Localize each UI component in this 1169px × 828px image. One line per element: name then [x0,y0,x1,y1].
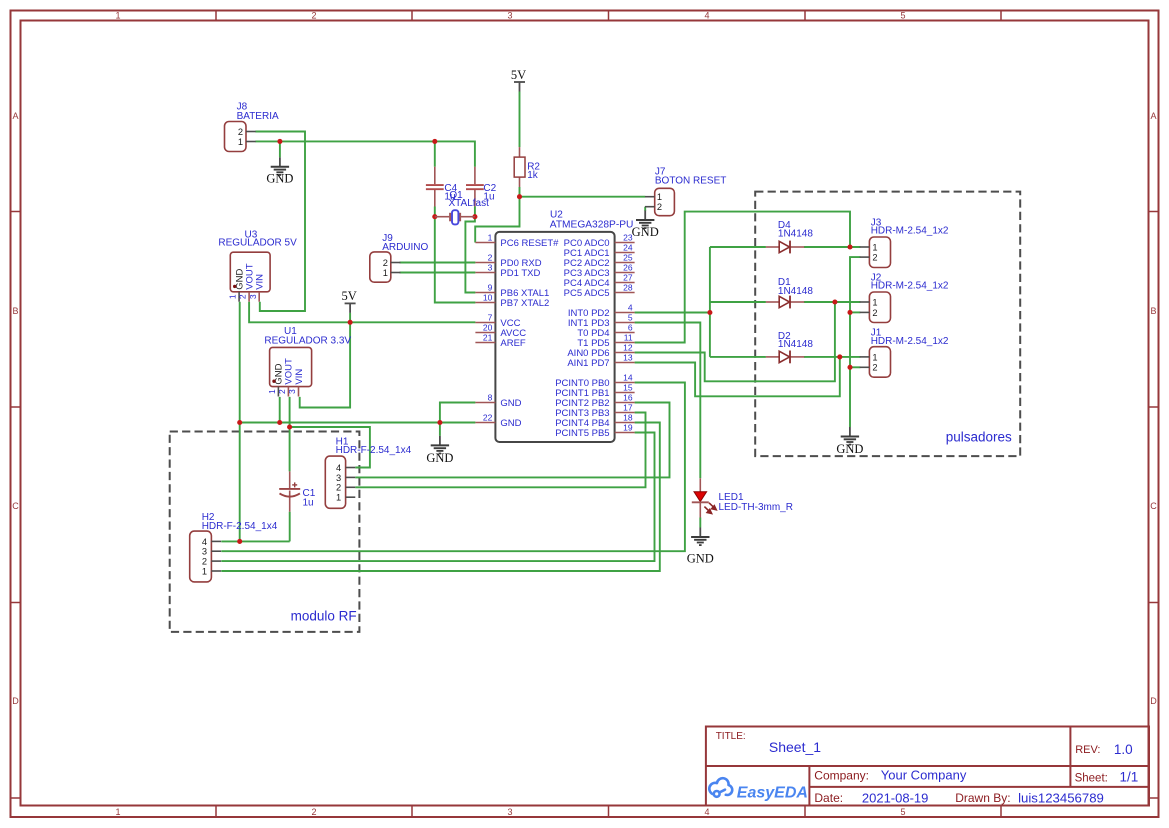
svg-text:7: 7 [488,313,493,323]
svg-text:3: 3 [336,473,341,483]
U2 pin 26 [615,263,635,273]
svg-text:GND: GND [687,552,714,566]
svg-text:2: 2 [336,483,341,493]
wire H2 pin4 to C1 bottom [221,540,289,542]
U2 pin 7 [475,313,495,323]
LED LED1 cathode bar [692,501,709,503]
J9 pin 1 [383,268,401,278]
svg-text:Drawn By:: Drawn By: [955,791,1010,805]
ruler ticks right [1149,212,1159,799]
node GND rail U3 junction [237,420,242,425]
svg-text:1u: 1u [303,498,314,509]
svg-text:1: 1 [267,389,277,394]
svg-text:6: 6 [628,323,633,333]
svg-text:3: 3 [248,294,258,299]
svg-text:2: 2 [277,389,287,394]
svg-text:AREF: AREF [500,338,526,349]
svg-text:GND: GND [266,172,293,186]
J1 pin 1 [860,352,878,362]
svg-text:BATERIA: BATERIA [237,111,279,122]
wire J2 pin1 to AIN0 PD6 [635,302,835,381]
connector J3 body [869,237,890,268]
svg-text:VIN: VIN [255,274,266,290]
svg-text:PD1 TXD: PD1 TXD [500,268,540,279]
svg-text:9: 9 [488,283,493,293]
svg-text:2: 2 [488,253,493,263]
wire C1 bottom lead net [289,512,291,542]
wire XTAL1 net C4 bottom to PB7 [435,207,476,303]
U2 pin 12 [615,343,635,353]
node 3.3V junction [287,424,292,429]
wire GND net pin8 branch [440,403,476,423]
wire D2 cathode to J1 pin1 [804,356,860,358]
svg-text:17: 17 [623,403,633,413]
U3 pin1 marker dot [233,285,236,288]
svg-text:B: B [12,306,18,316]
svg-text:2: 2 [657,202,662,212]
ruler ticks bottom [216,806,1001,818]
node diode bus junction [707,310,712,315]
node J2 pin1 junction [832,299,837,304]
svg-text:18: 18 [623,413,633,423]
wire RESET net to J7 pin1 [520,196,646,198]
H1 pin 1 [336,493,355,503]
svg-text:PC6 RESET#: PC6 RESET# [500,238,559,249]
svg-text:2021-08-19: 2021-08-19 [862,790,929,805]
node GND rail pin8 junction [437,420,442,425]
EasyEDA logo cloud [709,778,732,797]
svg-text:19: 19 [623,423,633,433]
wire battery GND drop [279,141,281,157]
svg-text:Company:: Company: [814,769,869,783]
U2 pin 13 [615,353,635,363]
svg-text:1N4148: 1N4148 [778,339,813,350]
crystal Q1 body [452,210,458,224]
svg-text:GND: GND [632,225,659,239]
regulator U1 body [270,347,312,386]
svg-text:1: 1 [657,192,662,202]
U3 pin 2 VOUT [238,292,249,302]
wire diode anode bus vertical [709,247,711,357]
J7 pin 1 [645,192,662,202]
svg-text:REGULADOR 5V: REGULADOR 5V [218,237,297,248]
svg-text:GND: GND [836,442,863,456]
U1 pin1 marker dot [272,380,275,383]
U2 pin 14 [615,373,635,383]
wire J2 pin2 stub link [850,311,860,313]
U2 pin 9 [475,283,495,293]
power flag 5V regulators [341,289,356,313]
node RESET junction [517,194,522,199]
node battery GND junction [277,139,282,144]
svg-text:1N4148: 1N4148 [778,286,813,297]
svg-text:REV:: REV: [1075,744,1100,756]
H2 pin 2 [202,557,221,567]
wire XTAL2 net C2 bottom to PB6 [465,207,475,293]
svg-text:1: 1 [872,297,877,307]
U2 right pin labels [555,238,609,439]
U2 pin 23 [615,233,635,243]
svg-text:4: 4 [202,537,207,547]
diode D1 leads [766,301,804,303]
node H2 pin4 junction [237,539,242,544]
svg-text:C: C [12,501,19,511]
diode D4 cathode bar [789,241,791,254]
svg-text:16: 16 [623,393,633,403]
svg-text:12: 12 [623,343,633,353]
U1 pin 1 GND [267,387,278,397]
node J1 pin1 junction [837,354,842,359]
wire 5V to R2 top [519,92,521,148]
U2 pin 2 [475,253,495,263]
svg-text:2: 2 [872,363,877,373]
svg-text:3: 3 [287,389,297,394]
wire D1 cathode to J2 pin1 [804,301,860,303]
dashed box pulsadores [755,192,1020,457]
op-amp U2 ATMEGA328P-PU body [495,232,614,442]
svg-text:2: 2 [872,308,877,318]
svg-text:TITLE:: TITLE: [716,731,746,742]
wire J1 pin1 to AIN1 PD7 [635,357,840,396]
J9 pin 2 [383,258,401,268]
wire bus to D4 anode [710,246,766,248]
wire U1 VOUT 3.3V net down [289,397,291,472]
svg-text:20: 20 [483,323,493,333]
wire LED1 cathode to GND [699,518,701,528]
node crystal right junction [472,214,477,219]
ground symbol LED1 [687,528,714,566]
wire INT1 PD3 to LED1 [635,323,701,479]
wire T1 PD5 to J3 pin1 [635,212,850,343]
U2 pin 15 [615,383,635,393]
resistor R2 leads [519,147,521,187]
ruler ticks top [216,11,1001,21]
svg-text:13: 13 [623,353,633,363]
svg-text:1: 1 [872,242,877,252]
svg-text:24: 24 [623,243,633,253]
diode D1 cathode bar [789,296,791,309]
crystal Q1 electrode plates [450,213,460,222]
U2 pin 20 [475,323,495,333]
svg-text:1N4148: 1N4148 [778,228,813,239]
ground symbol battery [266,157,293,185]
U2 pin 8 [475,393,495,403]
wire PCINT2 PB2 to H1 pin3 [355,403,669,478]
diode D2 triangle [779,351,789,362]
U2 pin 22 [475,413,495,423]
title block divider company/date [809,786,1149,788]
wire U3 GND vertical to H2 pin4 [239,302,241,542]
resistor R2 body [514,157,525,177]
regulator U3 body [230,252,270,292]
svg-text:14: 14 [623,373,633,383]
J8 pin 1 [238,137,256,147]
wire J1 pin2 stub link [850,366,860,368]
title block outline [706,727,1149,806]
wire pulsadores GND bus [850,257,860,427]
diode D2 leads [766,356,804,358]
J3 pin 1 [860,242,878,252]
svg-text:ATMEGA328P-PU: ATMEGA328P-PU [550,220,634,231]
dashed box modulo RF [170,432,360,632]
capacitor C4 plates [426,185,444,189]
capacitor C4 leads [434,167,436,207]
wire PCINT3 PB3 to H1 pin2 [355,413,645,488]
svg-text:21: 21 [483,333,493,343]
H2 pin 3 [202,547,221,557]
wire 5V flag stub to VCC net [349,313,351,322]
ground symbol pulsadores [836,427,863,456]
svg-text:1: 1 [872,352,877,362]
svg-text:1.0: 1.0 [1114,742,1133,757]
J7 pin 2 [645,202,662,212]
U1 pin 2 VOUT [277,387,288,397]
ruler numbers top 1-5 [115,11,905,21]
svg-text:5V: 5V [511,68,526,82]
svg-text:1: 1 [383,268,388,278]
LED LED1 leads [699,478,701,517]
svg-text:1k: 1k [527,170,539,181]
U2 pin 21 [475,333,495,343]
LED LED1 emission arrows [704,503,716,514]
wire 3.3V to H1 pin4 [290,427,370,468]
svg-text:PB7 XTAL2: PB7 XTAL2 [500,298,549,309]
svg-text:HDR-M-2.54_1x2: HDR-M-2.54_1x2 [871,280,949,291]
node J2 pin2 junction [847,310,852,315]
svg-text:B: B [1150,306,1156,316]
wire battery- GND rail top [255,141,475,166]
wire 5V VCC net U3 VOUT to pin7 [249,302,475,323]
svg-text:3: 3 [202,547,207,557]
svg-text:Date:: Date: [814,791,843,805]
wire GND rail to GND symbol [439,423,441,436]
diode D4 leads [766,246,804,248]
svg-text:Your Company: Your Company [881,768,967,783]
C1 polarity plus sign [292,482,297,487]
U2 pin 10 [475,293,495,303]
node J1 pin2 junction [847,365,852,370]
U2 pin 3 [475,263,495,273]
svg-text:23: 23 [623,233,633,243]
wire PCINT4 PB4 to H2 pin1 [221,423,660,572]
diode D4 triangle [779,241,789,252]
svg-text:2: 2 [238,294,248,299]
wire C4 top branch [434,141,436,166]
node J3 pin1 junction [847,244,852,249]
svg-text:C: C [1150,501,1157,511]
capacitor C2 plates [466,185,484,189]
svg-text:AIN1 PD7: AIN1 PD7 [567,358,609,369]
wire GND net pin22 rail [240,422,476,424]
svg-text:EasyEDA: EasyEDA [737,784,808,801]
J1 pin 2 [860,363,878,373]
ground symbol J7 [632,211,659,239]
U2 pin 17 [615,403,635,413]
connector H2 body [190,531,212,582]
svg-text:HDR-M-2.54_1x2: HDR-M-2.54_1x2 [871,226,949,237]
H1 pin 3 [336,473,355,483]
svg-text:U2: U2 [550,209,563,220]
node VCC 5V junction [348,320,353,325]
capacitor C1 plates [279,489,300,497]
wire J9 pin2 to PD0 RXD [400,262,476,264]
svg-text:5: 5 [900,11,905,21]
svg-text:A: A [12,111,18,121]
svg-text:A: A [1150,111,1156,121]
svg-text:BOTON RESET: BOTON RESET [655,176,727,187]
LED LED1 triangle [694,492,707,502]
U2 pin 19 [615,423,635,433]
svg-text:2: 2 [383,258,388,268]
U2 pin 18 [615,413,635,423]
U2 pin 27 [615,273,635,283]
U2 pin 5 [615,313,635,323]
svg-text:HDR-M-2.54_1x2: HDR-M-2.54_1x2 [871,336,949,347]
wire bus to D2 anode [710,356,766,358]
capacitor C1 leads [289,471,291,511]
U2 pin 24 [615,243,635,253]
U2 pin 1 [475,233,495,243]
U3 pin 1 GND [228,292,239,302]
U2 pin 11 [615,333,635,343]
svg-text:1: 1 [115,807,120,817]
svg-text:GND: GND [426,451,453,465]
title block divider logo cell [808,766,810,806]
ruler letters left A-D [12,111,19,706]
svg-text:10: 10 [483,293,493,303]
U2 pin 4 [615,303,635,313]
H1 pin 2 [336,483,355,493]
J8 pin 2 [238,127,256,137]
svg-text:1: 1 [488,233,493,243]
svg-text:4: 4 [704,11,709,21]
svg-text:HDR-F-2.54_1x4: HDR-F-2.54_1x4 [336,445,412,456]
U2 pin 16 [615,393,635,403]
J3 pin 2 [860,253,878,263]
svg-text:22: 22 [483,413,493,423]
connector H1 body [325,456,345,508]
svg-text:15: 15 [623,383,633,393]
svg-text:2: 2 [311,11,316,21]
svg-text:REGULADOR 3.3V: REGULADOR 3.3V [264,335,351,346]
svg-text:2: 2 [202,557,207,567]
power flag 5V top [511,68,526,92]
wire U1 GND to rail [279,397,281,423]
U3 pin 3 VIN [248,292,259,302]
svg-text:5V: 5V [341,289,356,303]
svg-text:PC5 ADC5: PC5 ADC5 [564,288,610,299]
svg-text:4: 4 [704,807,709,817]
J2 pin 2 [860,308,878,318]
svg-text:2: 2 [238,127,243,137]
svg-text:4: 4 [628,303,633,313]
capacitor C2 leads [474,167,476,207]
svg-text:pulsadores: pulsadores [946,430,1012,445]
svg-text:25: 25 [623,253,633,263]
svg-text:LED-TH-3mm_R: LED-TH-3mm_R [719,502,793,513]
U2 pin 25 [615,253,635,263]
svg-text:5: 5 [628,313,633,323]
diode D1 triangle [779,296,789,307]
wire bus to D1 anode [710,301,766,303]
wire RESET net R2 bottom to PC6 [475,187,519,243]
svg-text:Sheet:: Sheet: [1075,772,1108,784]
node GND rail U1 junction [277,420,282,425]
wire D4 cathode to J3 pin1 [804,246,860,248]
svg-text:3: 3 [488,263,493,273]
U1 pin 3 VIN [287,387,298,397]
svg-text:D: D [12,696,19,706]
title block divider row1 [706,765,1149,767]
diode D2 cathode bar [789,351,791,364]
svg-text:4: 4 [336,463,341,473]
svg-text:1: 1 [228,294,238,299]
crystal Q1 leads [435,216,475,218]
wire J9 pin1 to PD1 TXD [400,272,476,274]
connector J9 body [370,252,391,282]
H2 pin 4 [202,537,221,547]
svg-text:1: 1 [202,566,207,576]
connector J2 body [869,292,890,323]
svg-text:5: 5 [900,807,905,817]
wire PCINT5 PB5 to H2 pin2 [221,433,654,562]
U2 pin 6 [615,323,635,333]
ruler ticks left [11,212,21,799]
svg-text:ARDUINO: ARDUINO [382,242,428,253]
svg-text:27: 27 [623,273,633,283]
svg-text:1: 1 [336,493,341,503]
svg-text:28: 28 [623,283,633,293]
svg-text:1: 1 [238,137,243,147]
svg-text:1: 1 [115,11,120,21]
svg-text:26: 26 [623,263,633,273]
svg-text:2: 2 [872,253,877,263]
connector J1 body [869,347,890,378]
ruler numbers bottom 1-5 [115,807,905,817]
node crystal left junction [432,214,437,219]
svg-text:2: 2 [311,807,316,817]
svg-text:3: 3 [507,807,512,817]
connector J8 body [225,122,247,152]
svg-text:XTALfast: XTALfast [449,198,490,209]
title block divider right column [1069,727,1071,787]
node C4 top junction [432,139,437,144]
svg-text:8: 8 [488,393,493,403]
svg-text:3: 3 [507,11,512,21]
U2 left pin labels [500,238,559,429]
wire PCINT0 PB0 to H2 pin3 [221,383,685,552]
svg-text:PCINT5 PB5: PCINT5 PB5 [555,428,609,439]
svg-text:modulo RF: modulo RF [291,609,357,624]
J2 pin 1 [860,297,878,307]
wire J7 pin2 to GND [644,207,646,211]
wire INT0 PD2 to diode bus [635,312,710,314]
svg-text:VIN: VIN [294,369,305,385]
svg-text:Sheet_1: Sheet_1 [769,739,821,755]
connector J7 body [655,188,675,215]
svg-text:D: D [1150,696,1157,706]
svg-text:HDR-F-2.54_1x4: HDR-F-2.54_1x4 [202,521,278,532]
ruler letters right A-D [1150,111,1157,706]
svg-text:11: 11 [624,333,633,343]
svg-text:GND: GND [500,398,521,409]
wire U1 VIN to 5V net [300,322,350,407]
svg-text:1/1: 1/1 [1120,770,1139,785]
svg-text:GND: GND [500,418,521,429]
ground symbol U2 [426,436,453,465]
H2 pin 1 [202,566,221,576]
wire battery+ to U3 VIN [255,132,305,312]
